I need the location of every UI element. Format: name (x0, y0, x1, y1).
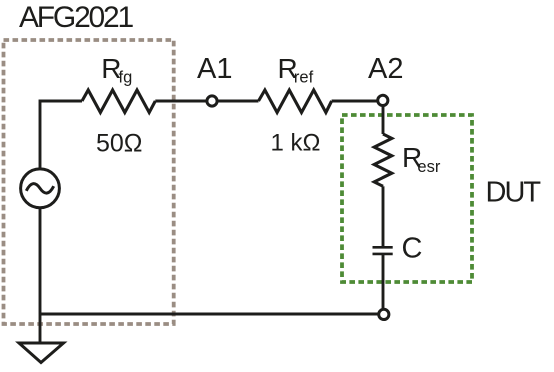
svg-text:A1: A1 (197, 53, 232, 85)
svg-text:DUT: DUT (486, 177, 542, 209)
resistor Resr (374, 134, 392, 186)
wire Resr to capacitor (382, 186, 385, 246)
wire capacitor to bottom node (382, 255, 385, 309)
svg-text:C: C (402, 233, 423, 265)
wire Rref to A2 (332, 100, 378, 103)
svg-text:Rref: Rref (278, 53, 314, 87)
svg-text:Resr: Resr (402, 142, 441, 176)
svg-text:A2: A2 (368, 53, 403, 85)
wire bottom horizontal (40, 313, 379, 316)
svg-text:Rfg: Rfg (101, 53, 132, 87)
node A1 (207, 96, 217, 106)
svg-text:50Ω: 50Ω (96, 130, 143, 158)
wire Rfg to A1 (155, 100, 206, 103)
svg-text:1 kΩ: 1 kΩ (271, 130, 321, 157)
node A2 (378, 95, 388, 105)
wire source to ground (39, 314, 42, 342)
wire A1 to Rref (218, 100, 259, 103)
sine wave (26, 184, 53, 193)
svg-text:AFG2021: AFG2021 (19, 1, 134, 34)
node bottom (379, 309, 389, 319)
source V1 (21, 169, 60, 208)
wire top-left horizontal (40, 101, 82, 314)
AFG2021 dashed box (4, 40, 174, 324)
capacitor C (373, 246, 393, 249)
ground (19, 343, 64, 363)
resistor Rref (259, 90, 332, 113)
DUT dashed box (342, 115, 472, 282)
wire A2 down to Resr (382, 106, 385, 135)
resistor Rfg (82, 90, 155, 113)
